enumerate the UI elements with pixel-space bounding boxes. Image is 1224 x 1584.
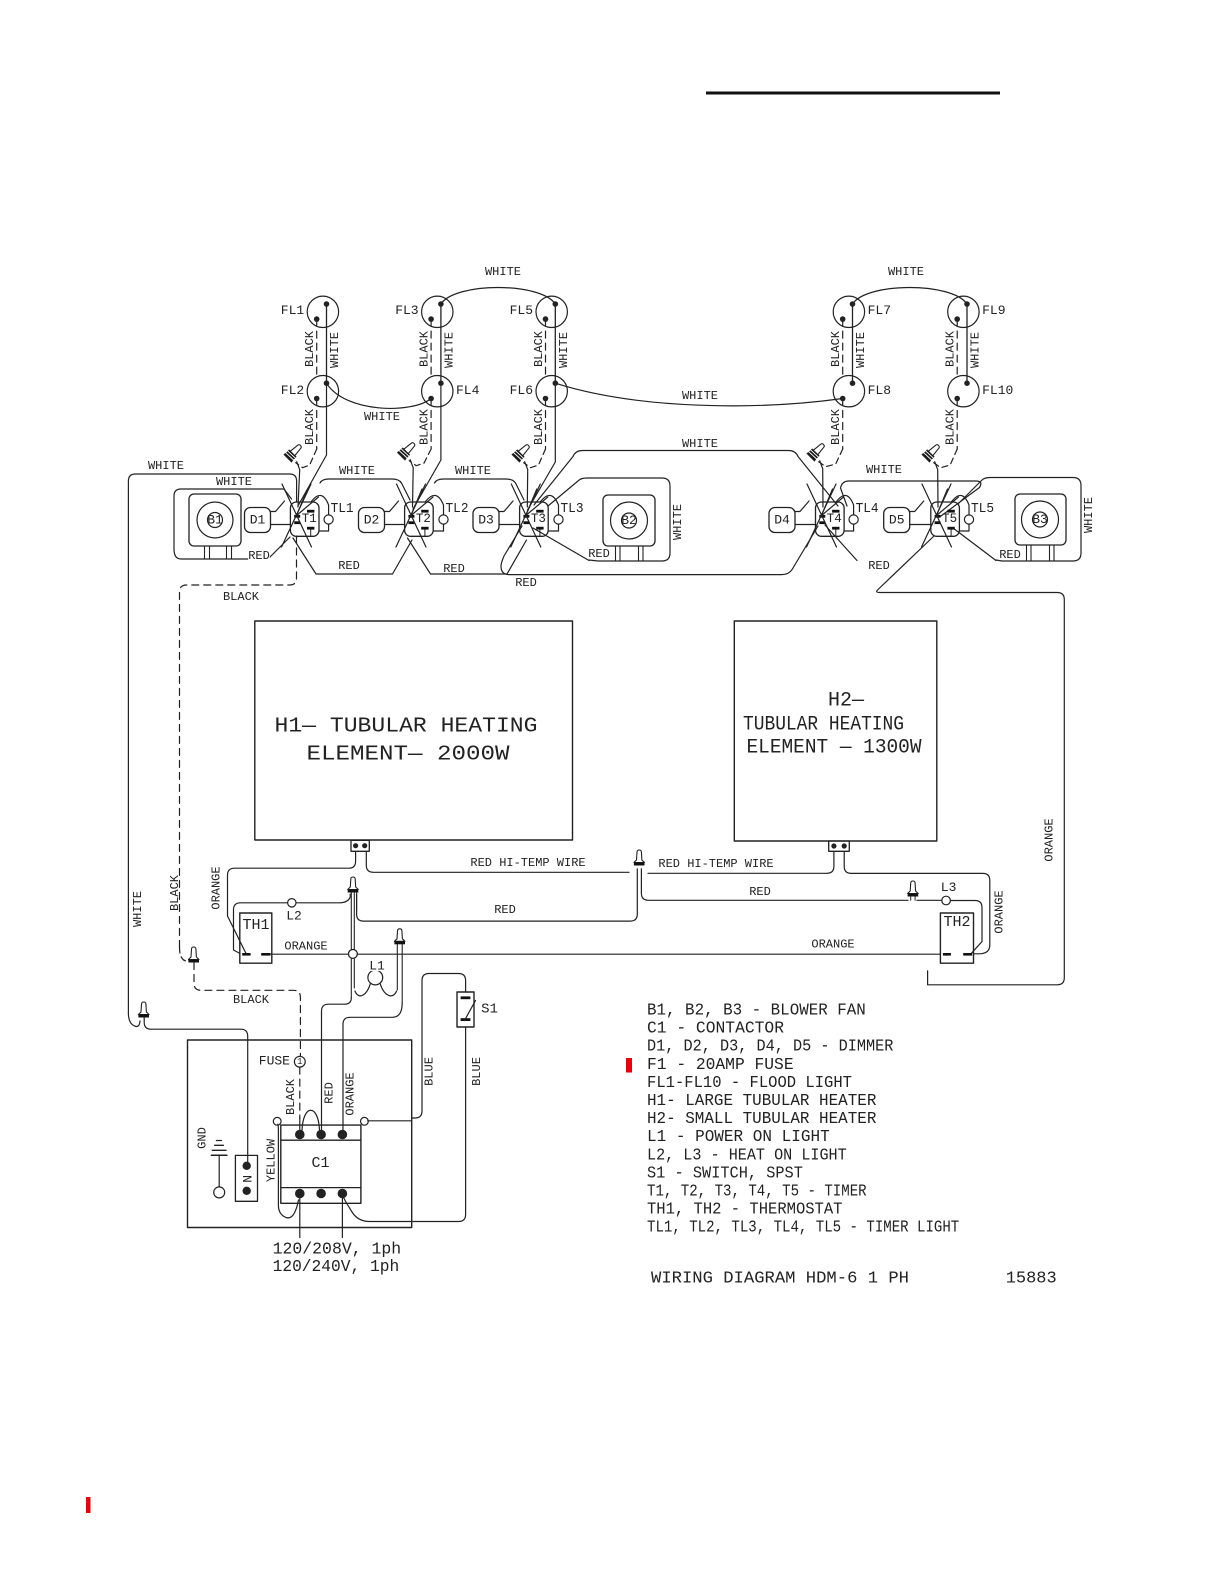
svg-text:BLACK: BLACK [829,330,843,367]
svg-text:RED: RED [588,547,610,561]
svg-text:FL3: FL3 [395,303,418,318]
svg-text:T3: T3 [531,512,546,526]
svg-text:WHITE: WHITE [364,410,400,424]
svg-text:C1 - CONTACTOR: C1 - CONTACTOR [647,1020,784,1039]
wire black dashed below FL4 [430,399,432,450]
svg-text:WHITE: WHITE [131,891,145,927]
wire nut ch1 [284,442,304,462]
wire nut tail to T3 [525,462,528,507]
wire white FL3-FL4 [440,304,442,383]
thermostat TH1 [240,913,272,963]
svg-text:FL10: FL10 [982,383,1013,398]
svg-text:BLUE: BLUE [470,1057,484,1086]
wire nut on red hi-temp [634,850,645,863]
wire yellow aux to bottom terminal [278,1124,299,1218]
wire D4 to T4 [795,524,816,526]
wire white bus T3-T4 [534,451,838,507]
svg-text:TL2: TL2 [446,502,469,517]
junction fan T5 [922,484,952,547]
svg-text:L2, L3 - HEAT ON LIGHT: L2, L3 - HEAT ON LIGHT [647,1146,847,1165]
svg-text:TL4: TL4 [856,502,879,517]
svg-text:D4: D4 [774,513,790,528]
label RED B2 enclosure [588,549,610,558]
lamp L1 [368,970,383,985]
svg-text:B1: B1 [207,513,223,528]
wire red diagonal T4 to B3 loop [825,525,857,561]
wire white arc FL2-FL4 [327,383,432,408]
wire nut black (left) [188,947,199,960]
wire black dashed below FL6 [545,399,547,450]
terminal block N [235,1155,257,1201]
contactor C1 aux terminal right [361,1117,369,1125]
svg-text:BLACK: BLACK [223,590,260,604]
timer light TL5 [964,515,973,524]
wire white FL6 down to T3 [528,383,556,510]
wire L1 left lead [355,983,371,996]
svg-text:ORANGE: ORANGE [811,938,854,952]
label ORANGE main 1 [284,942,327,951]
svg-text:TL1: TL1 [331,502,354,517]
wire white B2 enclosure top [548,478,670,561]
svg-text:S1: S1 [481,1002,498,1018]
wire white outer loop left [128,474,296,1013]
junction fan T3 [511,484,541,547]
label RED B3 enclosure [999,550,1021,559]
wire blue from box edge to C1 aux [368,1120,412,1122]
wire TL2 arc [425,495,443,514]
svg-text:ELEMENT — 1300W: ELEMENT — 1300W [747,737,922,760]
svg-text:L2: L2 [286,909,302,924]
thermostat TH2 [940,913,973,963]
svg-text:FL9: FL9 [982,303,1005,318]
svg-text:WHITE: WHITE [339,464,375,478]
svg-text:WHITE: WHITE [969,332,983,368]
timer T5 [931,502,960,536]
svg-text:RED: RED [248,549,270,563]
fuse F1 [294,1056,305,1067]
wire red B3 enclosure bottom diagonal [953,528,996,561]
wire nut tail to T4 [820,461,823,507]
wire TL3 bottom lead [548,524,558,531]
wire black fuse to C1 [299,1067,301,1118]
wire white FL9-FL10 [966,304,968,383]
timer T3 [520,502,549,536]
wire black dashed FL3-FL4 [430,319,432,377]
label WHITE arc FL3-FL5 [485,267,521,276]
svg-text:TL1, TL2, TL3, TL4, TL5 - TIME: TL1, TL2, TL3, TL4, TL5 - TIMER LIGHT [647,1219,959,1238]
wire nut ch2 [398,440,418,460]
wire L3 to TH2 right terminal [950,901,982,954]
flood light FL7 [833,296,864,327]
svg-text:BLACK: BLACK [532,408,546,445]
wire orange H2-right to TH2 [844,852,990,954]
wire TL2 bottom lead [433,524,443,531]
timer light TL3 [554,515,563,524]
svg-text:D1, D2, D3, D4, D5 - DIMMER: D1, D2, D3, D4, D5 - DIMMER [647,1038,893,1057]
svg-text:TL5: TL5 [971,502,994,517]
wire white FL7-FL8 [852,304,854,383]
contactor C1 top terminals [295,1130,305,1140]
wire L1 right lead [380,983,397,996]
svg-text:FL1: FL1 [281,303,305,318]
timer T2 [405,502,434,536]
label ORANGE vertical at C1 [345,1072,356,1115]
svg-text:ELEMENT— 2000W: ELEMENT— 2000W [307,744,510,767]
svg-text:RED: RED [749,885,771,899]
wire black dashed hook into nut [180,947,189,961]
svg-text:ORANGE: ORANGE [284,940,327,954]
svg-text:T1, T2, T3, T4, T5 - TIMER: T1, T2, T3, T4, T5 - TIMER [647,1183,867,1202]
wire TL5 bottom lead [959,524,969,531]
wire TL5 arc [951,495,969,514]
dimmer D2 [359,508,385,533]
svg-text:WHITE: WHITE [682,437,718,451]
wire white bus T1-T2 [320,479,410,500]
svg-text:WHITE: WHITE [216,475,252,489]
wire black elbow FL into nut ch1 [296,449,317,468]
switch S1 [457,992,474,1027]
heater H1 box [255,621,573,840]
wire white hook into nut [128,1013,140,1027]
wire nut tail to T1 [297,462,300,507]
wire white B3 enclosure top [958,478,1081,562]
wire white FL5-FL6 [554,304,556,383]
svg-text:TL3: TL3 [561,502,584,517]
svg-text:L1: L1 [369,959,385,974]
wire white nut tail to N [144,1018,248,1163]
wire D1 to T1 [271,524,291,526]
junction circle on orange wire [349,950,358,959]
wire L2 left to TH1 [234,903,288,954]
wire black nut tail to fuse [194,963,300,1057]
svg-text:FL1-FL10 - FLOOD LIGHT: FL1-FL10 - FLOOD LIGHT [647,1074,852,1093]
lamp L3 [942,896,951,905]
svg-text:RED: RED [868,559,890,573]
wire red B2 enclosure bottom diagonal [533,528,589,561]
wire white arc FL3-FL5 [441,288,555,305]
wire black dashed FL1-FL2 [316,319,318,377]
svg-text:D1: D1 [250,513,266,528]
svg-text:RED: RED [443,562,465,576]
svg-text:B1, B2, B3 - BLOWER FAN: B1, B2, B3 - BLOWER FAN [647,1002,866,1021]
flood light FL6 [536,376,567,407]
svg-text:RED: RED [338,559,360,573]
wire TL4 bottom lead [844,524,854,531]
wire white FL1-FL2 [326,304,328,383]
wire nut1 right tail to L3 wire [641,869,908,901]
svg-text:WHITE: WHITE [682,389,718,403]
svg-text:FUSE: FUSE [259,1054,290,1069]
wire D4 upper lead [795,501,809,512]
svg-text:WHITE: WHITE [455,464,491,478]
svg-text:WHITE: WHITE [866,463,902,477]
svg-text:FL4: FL4 [456,383,480,398]
blower B3 [1015,494,1066,545]
svg-text:TH2: TH2 [943,914,970,931]
wire nut tail to T5 [935,462,938,507]
svg-text:RED: RED [494,903,516,917]
svg-text:ORANGE: ORANGE [1043,818,1057,861]
svg-text:YELLOW: YELLOW [265,1138,279,1182]
wire white arc FL7-FL9 [853,288,968,305]
wire black dashed FL5-FL6 [545,319,547,377]
wire supply leads [299,1198,301,1238]
wire pair below nut2 [350,893,352,950]
contactor C1 jumper arch [302,1110,320,1130]
wire black elbow FL into nut ch2 [409,449,431,466]
flood light FL2 [307,376,338,407]
wire black dashed FL9-FL10 [956,319,958,377]
svg-text:RED: RED [999,548,1021,562]
wire D2 upper lead [385,501,399,512]
wire black elbow FL into nut ch3 [524,449,546,468]
label WHITE arc FL7-FL9 [888,267,924,276]
wire nut ch4 [807,441,827,461]
svg-text:BLACK: BLACK [418,330,432,367]
wire red B1 enclosure bottom [174,537,290,559]
timer light TL1 [324,515,333,524]
svg-text:WIRING DIAGRAM HDM-6 1 PH: WIRING DIAGRAM HDM-6 1 PH [651,1270,909,1289]
flood light FL4 [422,376,453,407]
svg-text:D5: D5 [889,513,905,528]
svg-text:WHITE: WHITE [1082,497,1096,533]
dimmer D1 [245,508,271,533]
wire red hi-temp nut to H2-left [648,852,834,874]
wire nut ch3 [512,442,532,462]
svg-text:WHITE: WHITE [557,332,571,368]
wire nut ch5 [922,442,942,462]
svg-text:TUBULAR HEATING: TUBULAR HEATING [743,714,904,737]
svg-text:T4: T4 [827,512,842,526]
svg-text:FL2: FL2 [281,383,304,398]
svg-text:BLACK: BLACK [418,408,432,445]
red mark bottom left [86,1497,91,1513]
svg-text:BLACK: BLACK [944,330,958,367]
svg-text:B3: B3 [1032,512,1048,527]
heater H2 box [734,621,937,841]
svg-text:120/208V, 1ph: 120/208V, 1ph [273,1241,402,1260]
wire nut 2 [348,877,359,890]
wire TL1 arc [311,495,329,514]
wire red loop T1-T2 [293,538,412,574]
svg-text:FL8: FL8 [868,383,891,398]
svg-text:N: N [241,1175,256,1183]
svg-text:T5: T5 [942,512,957,526]
wire D3 to T3 [499,524,520,526]
wire black dashed from T1 down [180,536,297,947]
wire white FL2 down to T1 [299,383,327,505]
svg-text:BLACK: BLACK [233,993,270,1007]
timer light TL4 [849,515,858,524]
svg-text:15883: 15883 [1006,1270,1057,1289]
svg-text:WHITE: WHITE [328,332,342,368]
wire nut 3 [394,929,405,942]
svg-text:WHITE: WHITE [148,459,184,473]
wire black dashed below FL10 [956,399,958,450]
wire white B1 enclosure top [174,489,292,549]
contactor C1 aux terminal left [273,1117,281,1125]
svg-text:BLACK: BLACK [303,408,317,445]
svg-text:FL5: FL5 [510,303,533,318]
wire blue S1 top loop [412,974,466,1119]
blower B1 [189,494,241,546]
wire red jog to C1 [322,998,352,1130]
dimmer D3 [473,508,499,533]
flood light FL1 [307,296,338,327]
wire black dashed FL7-FL8 [842,319,844,377]
junction fan T4 [807,484,837,547]
svg-text:S1 - SWITCH, SPST: S1 - SWITCH, SPST [647,1164,803,1183]
wire D5 to T5 [910,524,931,526]
svg-text:BLACK: BLACK [944,408,958,445]
svg-text:WHITE: WHITE [442,332,456,368]
wire black elbow FL into nut ch5 [934,449,958,468]
wire D5 upper lead [910,501,924,512]
svg-text:H2—: H2— [828,690,865,713]
wire nut L3 stubs [910,897,912,901]
wire white catenary FL6-FL8 [555,383,842,406]
svg-text:H1- LARGE TUBULAR HEATER: H1- LARGE TUBULAR HEATER [647,1092,876,1111]
svg-text:B2: B2 [621,513,637,528]
lamp L2 [288,899,296,907]
contactor C1 bottom terminals [295,1189,305,1199]
svg-text:BLUE: BLUE [423,1057,437,1086]
label RED B1 enclosure [248,551,270,560]
top horizontal rule [706,92,1000,95]
wire D1 upper lead [271,501,285,512]
timer T4 [816,502,845,536]
wire black dashed below FL2 [316,399,318,450]
svg-text:L3: L3 [941,880,957,895]
svg-text:BLACK: BLACK [168,874,182,911]
wire L2 right to nut2 [296,894,350,903]
blower B3 legs [1026,545,1028,561]
svg-text:RED: RED [323,1082,337,1104]
legend red mark at F1 [626,1058,632,1073]
svg-text:RED: RED [515,576,537,590]
svg-text:T2: T2 [416,512,431,526]
svg-text:FL7: FL7 [868,303,891,318]
svg-text:1: 1 [297,1057,302,1067]
flood light FL10 [948,376,979,407]
wire pair below nut3 [396,944,398,990]
svg-text:RED HI-TEMP WIRE: RED HI-TEMP WIRE [470,856,585,870]
wire white FL4 down to T2 [413,383,441,509]
wire orange H1-left to TH1 [228,852,356,954]
svg-text:RED HI-TEMP WIRE: RED HI-TEMP WIRE [658,857,773,871]
wire L3 segment [917,899,942,901]
dimmer D5 [884,508,910,533]
svg-text:F1 - 20AMP FUSE: F1 - 20AMP FUSE [647,1056,794,1075]
svg-text:ORANGE: ORANGE [993,890,1007,933]
flood light FL5 [536,296,567,327]
timer light TL2 [439,515,448,524]
svg-text:ORANGE: ORANGE [344,1072,358,1115]
flood light FL9 [948,296,979,327]
svg-text:BLACK: BLACK [284,1078,298,1115]
wire black dashed below FL8 [842,399,844,450]
wire D3 upper lead [499,501,513,512]
wire black elbow FL into nut ch4 [819,449,843,467]
wire orange T5 to right edge down to TH2 [877,536,1065,985]
svg-text:WHITE: WHITE [485,265,521,279]
svg-text:BLACK: BLACK [303,330,317,367]
wire TL3 arc [540,495,558,514]
control enclosure box [188,1040,412,1228]
flood light FL3 [422,296,453,327]
junction fan T1 [282,484,312,547]
blower B2 legs [615,546,617,561]
wire orange jog to C1 [343,1003,402,1130]
svg-text:WHITE: WHITE [671,504,685,540]
wire white bus T4-T5 [841,481,981,516]
contactor C1 [281,1125,361,1203]
svg-text:D3: D3 [478,513,494,528]
wire nut white (left) [138,1002,149,1015]
blower B1 legs [204,546,206,559]
label ORANGE main 2 [811,940,854,949]
wire D2 to T2 [385,524,405,526]
timer T1 [290,502,319,536]
svg-text:FL6: FL6 [510,383,533,398]
wire pair below junction [350,958,352,998]
wire red long loop T3-T4 [501,526,818,575]
wire TL4 arc [836,495,854,514]
svg-text:TH1, TH2 - THERMOSTAT: TH1, TH2 - THERMOSTAT [647,1201,843,1220]
svg-text:GND: GND [195,1127,209,1149]
wire TL1 bottom lead [319,524,329,531]
wire nut near L3 [908,881,919,894]
wire red loop T2-T3 [408,538,527,574]
wire blue S1 bottom to C1 [344,1027,466,1222]
heater H1 terminal box [351,840,369,851]
svg-text:H1— TUBULAR HEATING: H1— TUBULAR HEATING [275,716,538,739]
svg-text:H2- SMALL TUBULAR HEATER: H2- SMALL TUBULAR HEATER [647,1110,876,1129]
svg-text:L1 - POWER ON LIGHT: L1 - POWER ON LIGHT [647,1128,830,1147]
wire nut tail to T2 [410,460,413,507]
wire orange TH1 to TH2 [271,953,349,955]
wire nut1 left tail to red wire [357,869,638,921]
label BLACK bus top [223,592,259,601]
label BLACK lower bus [233,995,269,1004]
svg-text:WHITE: WHITE [854,332,868,368]
svg-text:BLACK: BLACK [829,408,843,445]
svg-text:T1: T1 [302,512,317,526]
blower B2 [603,495,655,546]
svg-text:BLACK: BLACK [532,330,546,367]
wire white bus T2-T3 [435,479,525,500]
svg-text:120/240V, 1ph: 120/240V, 1ph [273,1258,400,1277]
svg-text:D2: D2 [364,513,380,528]
svg-text:TH1: TH1 [242,917,269,934]
heater H2 terminal box [829,841,850,851]
junction fan T2 [397,484,427,547]
dimmer D4 [769,508,795,533]
flood light FL8 [833,376,864,407]
svg-text:C1: C1 [311,1155,329,1172]
label WHITE catenary FL6-FL8 [682,391,718,400]
svg-text:ORANGE: ORANGE [209,866,223,909]
svg-text:WHITE: WHITE [888,265,924,279]
wire red hi-temp H1 to nut [366,852,629,873]
